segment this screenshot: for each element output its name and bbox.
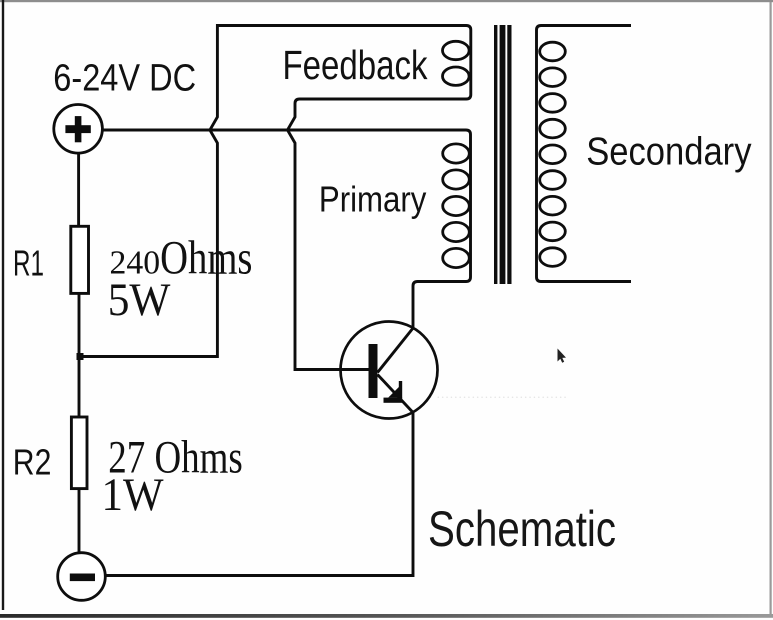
- resistor R2: [71, 417, 87, 489]
- svg-text:Feedback: Feedback: [283, 42, 429, 88]
- battery positive terminal: [54, 105, 103, 154]
- mouse cursor: [558, 349, 567, 363]
- wire: [288, 26, 471, 370]
- svg-text:..............................: ..............................: [437, 386, 567, 401]
- transformer core: [494, 25, 512, 284]
- transistor Q1: [341, 322, 438, 419]
- wire: [106, 413, 413, 576]
- transformer secondary winding: [537, 26, 632, 282]
- svg-text:1W: 1W: [102, 470, 164, 521]
- resistor R1: [71, 226, 89, 293]
- wire: [103, 130, 471, 328]
- node junction: [77, 353, 84, 360]
- svg-text:R1: R1: [13, 242, 44, 283]
- wire: [78, 489, 81, 553]
- wire: [80, 26, 459, 357]
- svg-text:R2: R2: [13, 442, 52, 483]
- svg-text:Primary: Primary: [319, 179, 427, 220]
- transformer primary winding: [443, 144, 470, 268]
- wire: [77, 154, 80, 227]
- transformer feedback winding: [443, 41, 470, 85]
- wire: [78, 294, 81, 418]
- svg-text:Schematic: Schematic: [428, 501, 616, 557]
- svg-text:Secondary: Secondary: [586, 131, 752, 174]
- svg-text:5W: 5W: [108, 274, 171, 326]
- svg-text:6-24V DC: 6-24V DC: [53, 56, 196, 98]
- battery negative terminal: [58, 553, 106, 601]
